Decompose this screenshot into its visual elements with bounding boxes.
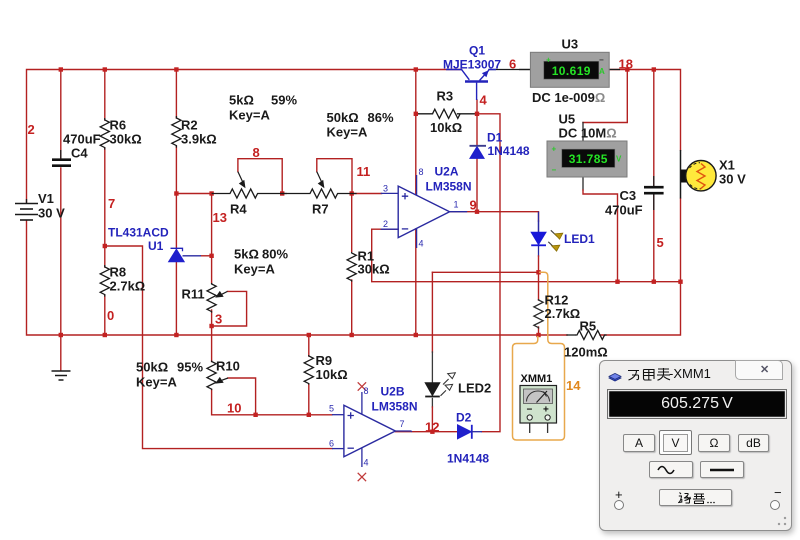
op-amp U2A	[381, 175, 468, 248]
svg-text:50kΩ: 50kΩ	[327, 110, 359, 125]
svg-text:5: 5	[329, 404, 334, 414]
transistor Q1	[446, 70, 496, 101]
wire LED1 cathode to net14 junction	[538, 246, 540, 256]
svg-text:2.7kΩ: 2.7kΩ	[545, 306, 581, 321]
junction lamp bottom net 5	[678, 280, 682, 284]
svg-text:470uF: 470uF	[63, 132, 101, 147]
svg-text:DC 1e-009Ω: DC 1e-009Ω	[532, 90, 605, 105]
svg-text:R4: R4	[230, 202, 247, 217]
button A	[623, 434, 655, 452]
svg-text:10.619: 10.619	[552, 64, 591, 78]
wire R9 bottom	[308, 384, 310, 415]
junction C4 ground rail	[59, 333, 63, 337]
wire R11 bottom through rail to R10	[211, 310, 213, 362]
svg-text:C3: C3	[620, 188, 637, 203]
potentiometer R11	[207, 283, 227, 313]
wire rail to R5	[567, 334, 575, 336]
svg-text:1: 1	[454, 200, 459, 210]
svg-text:14: 14	[566, 378, 581, 393]
wire net 4 jog to D2 cathode	[477, 114, 500, 432]
junction Q1 branch top rail	[414, 67, 418, 71]
resistor R1	[347, 252, 356, 282]
wire U2A pin8 supply column	[415, 70, 417, 195]
junction R2 top rail	[174, 67, 178, 71]
svg-text:R8: R8	[110, 265, 127, 280]
settings button	[659, 489, 732, 506]
junction R6 top rail	[103, 67, 107, 71]
XMM1 probe wires	[513, 272, 565, 440]
wire Q1 base to net 4 junction	[476, 100, 478, 114]
svg-text:8: 8	[253, 145, 260, 160]
diode D2	[458, 425, 483, 439]
svg-text:4: 4	[364, 458, 369, 468]
terminal minus	[774, 485, 782, 500]
meter display	[607, 389, 787, 419]
svg-text:A: A	[599, 67, 605, 76]
svg-text:3.9kΩ: 3.9kΩ	[181, 132, 217, 147]
wire R8 bottom net 0	[104, 295, 106, 335]
wire R11 wiper loop net 3	[211, 159, 213, 172]
svg-text:U2A: U2A	[435, 165, 459, 179]
svg-text:Key=A: Key=A	[234, 262, 275, 277]
junction R11 wiper net 3	[209, 324, 213, 328]
junction LED1 R12 net 14	[536, 270, 540, 274]
svg-text:2.7kΩ: 2.7kΩ	[110, 279, 146, 294]
button dB	[738, 434, 769, 452]
junction C3 top net 18	[652, 67, 656, 71]
unconnected pin X bottom U2B	[358, 473, 366, 481]
wire U5 bottom to net5	[582, 177, 584, 190]
svg-text:TL431ACD: TL431ACD	[108, 226, 169, 240]
button Ohm	[698, 434, 730, 452]
window title	[627, 367, 671, 381]
wire C3 bottom net5	[653, 194, 655, 282]
svg-text:10: 10	[227, 401, 241, 416]
capacitor C3	[644, 176, 664, 210]
svg-text:R5: R5	[580, 319, 597, 334]
junction R1 bottom ground rail	[350, 333, 354, 337]
wire LED2 cathode to node 12	[431, 399, 433, 408]
svg-text:30kΩ: 30kΩ	[110, 132, 142, 147]
wire R3 right lead	[458, 113, 478, 115]
svg-text:4: 4	[419, 239, 424, 249]
junction U2A pin4 ground rail	[414, 333, 418, 337]
wire C4 bottom	[60, 168, 62, 335]
wire U1 cathode column	[175, 194, 177, 248]
junction R9 top ground rail	[307, 333, 311, 337]
button V selected	[659, 430, 692, 455]
resize grip	[777, 516, 787, 526]
svg-text:U3: U3	[562, 37, 579, 52]
svg-text:470uF: 470uF	[605, 203, 643, 218]
wire R5 right to net5 riser	[600, 282, 681, 335]
svg-text:1N4148: 1N4148	[488, 144, 530, 158]
wire R7 wiper loop net 11	[317, 159, 352, 194]
LED2	[425, 373, 455, 397]
resistor R3	[433, 109, 461, 118]
wire R1 bottom	[351, 280, 353, 335]
lamp X1	[681, 150, 717, 199]
wire R9 top	[308, 335, 310, 356]
junction R4 left net 13	[209, 191, 213, 195]
svg-text:13: 13	[213, 210, 227, 225]
svg-text:30 V: 30 V	[719, 172, 746, 187]
svg-text:V1: V1	[38, 191, 54, 206]
button sine	[649, 461, 693, 478]
wire lamp bottom	[680, 199, 682, 282]
svg-text:50kΩ: 50kΩ	[136, 360, 168, 375]
svg-text:2: 2	[383, 219, 388, 229]
capacitor C4	[52, 150, 71, 166]
svg-text:10kΩ: 10kΩ	[316, 367, 348, 382]
wire R6 column top	[104, 70, 106, 121]
svg-text:10kΩ: 10kΩ	[430, 120, 462, 135]
svg-text:0: 0	[107, 308, 114, 323]
wire U2B output net12	[395, 431, 457, 433]
svg-text:59%: 59%	[271, 93, 297, 108]
LED1	[531, 212, 563, 252]
svg-text:−: −	[599, 56, 604, 65]
junction U1 anode ground rail	[174, 333, 178, 337]
wire R10 bottom net 10	[212, 390, 332, 415]
potentiometer R7	[282, 172, 356, 198]
diode D1	[470, 146, 487, 159]
wire U1 ref to net13 column	[201, 255, 212, 257]
wire net 7 R6 to R8	[104, 148, 106, 267]
wire net 7 jog to U2B pin6	[105, 246, 332, 449]
svg-text:LED2: LED2	[458, 381, 491, 396]
wire U2A pin2 to net5	[372, 229, 681, 282]
wire LED1-LED2 link	[432, 271, 538, 273]
junction R8 ground rail	[103, 333, 107, 337]
junction U2A output net 9	[475, 210, 479, 214]
svg-text:Key=A: Key=A	[136, 375, 177, 390]
svg-text:Q1: Q1	[469, 44, 485, 58]
svg-text:12: 12	[425, 420, 439, 435]
multimeter window XMM1	[599, 360, 792, 531]
wire net18 drop to U5 top	[583, 70, 627, 123]
svg-text:R6: R6	[110, 118, 127, 133]
svg-text:R7: R7	[312, 202, 329, 217]
wire LED2 column	[431, 272, 433, 352]
junction U2B output net 12	[430, 430, 434, 434]
svg-text:D2: D2	[456, 411, 472, 425]
wire Q1 emitter to U3	[489, 69, 530, 71]
junction U1 ref net 13	[209, 254, 213, 258]
wire battery bottom to ground rail	[27, 221, 568, 335]
svg-text:6: 6	[509, 57, 516, 72]
svg-text:DC 10MΩ: DC 10MΩ	[559, 126, 617, 141]
potentiometer R10	[207, 361, 228, 391]
svg-text:LM358N: LM358N	[372, 400, 418, 414]
junction net 18 U5 drop	[625, 67, 629, 71]
unconnected pin X top U2B	[358, 382, 366, 390]
wire R4 wiper loop net 8	[238, 159, 282, 194]
svg-text:+: +	[543, 405, 549, 416]
svg-text:6: 6	[329, 439, 334, 449]
svg-text:C4: C4	[71, 146, 88, 161]
junction C3 bottom net 5	[652, 280, 656, 284]
svg-text:3: 3	[383, 184, 388, 194]
svg-text:LM358N: LM358N	[426, 180, 472, 194]
ammeter U3	[519, 52, 620, 87]
svg-text:30 V: 30 V	[38, 206, 65, 221]
svg-text:4: 4	[480, 93, 488, 108]
junction R4 wiper net 8	[280, 191, 284, 195]
ground symbol	[52, 337, 71, 380]
wire D1 column net4 to net9	[476, 114, 478, 145]
wire R10 wiper loop	[228, 378, 256, 415]
wire R12 bottom	[538, 327, 540, 335]
resistor R2	[172, 116, 181, 148]
wire lamp top from rail	[609, 70, 680, 151]
svg-text:8: 8	[419, 167, 424, 177]
svg-text:11: 11	[357, 164, 371, 179]
wire net 13 column	[211, 194, 213, 284]
TL431 U1	[169, 248, 201, 262]
XMM1 instrument icon	[520, 386, 557, 434]
svg-text:3: 3	[215, 312, 222, 327]
svg-text:R11: R11	[182, 287, 205, 302]
junction net 7 tap	[103, 244, 107, 248]
resistor R12	[534, 299, 543, 329]
wire net 9 output to LED1	[450, 212, 539, 221]
potentiometer R4	[212, 172, 287, 198]
svg-text:−: −	[527, 405, 533, 416]
svg-text:R2: R2	[181, 118, 198, 133]
svg-text:MJE13007: MJE13007	[443, 58, 501, 72]
junction U5 minus net 5	[615, 280, 619, 284]
svg-text:30kΩ: 30kΩ	[358, 262, 390, 277]
window close button	[735, 360, 783, 380]
svg-text:X1: X1	[719, 158, 735, 173]
junction R12 bottom ground rail	[536, 333, 540, 337]
junction R3 right net 4	[475, 112, 479, 116]
resistor R6	[100, 118, 109, 150]
resistor R9	[304, 355, 313, 385]
svg-text:+: +	[546, 56, 551, 65]
junction C4 top rail	[59, 67, 63, 71]
svg-text:80%: 80%	[262, 247, 288, 262]
svg-text:Key=A: Key=A	[327, 125, 368, 140]
wire R2 bottom to net 13	[176, 146, 211, 194]
voltmeter U5	[547, 141, 627, 177]
terminal plus	[615, 487, 623, 502]
wire R12 top	[538, 272, 540, 300]
svg-text:V: V	[616, 155, 622, 164]
junction R2 bottom net 13	[174, 191, 178, 195]
svg-text:9: 9	[470, 198, 477, 213]
wire R2 column top	[175, 70, 177, 119]
junction R3 left net 2	[414, 112, 418, 116]
wire R3 left lead	[416, 113, 433, 115]
svg-text:U5: U5	[559, 112, 576, 127]
svg-text:120mΩ: 120mΩ	[564, 345, 608, 360]
svg-text:LED1: LED1	[564, 232, 595, 246]
svg-text:XMM1: XMM1	[521, 373, 553, 385]
junction R10 wiper net 10	[253, 413, 257, 417]
svg-text:7: 7	[108, 196, 115, 211]
svg-text:18: 18	[619, 57, 633, 72]
svg-text:2: 2	[28, 122, 35, 137]
resistor R5	[575, 330, 607, 339]
svg-text:U1: U1	[148, 239, 164, 253]
wire R1 top	[351, 194, 353, 253]
svg-text:D1: D1	[487, 131, 503, 145]
svg-text:31.785: 31.785	[569, 152, 608, 166]
svg-text:+: +	[552, 145, 557, 154]
junction R9 bottom net 10	[307, 413, 311, 417]
wire U1 anode to ground rail	[175, 262, 177, 335]
svg-text:U2B: U2B	[381, 385, 405, 399]
wire C4 column	[60, 70, 62, 159]
svg-text:95%: 95%	[177, 360, 203, 375]
resistor R8	[100, 265, 109, 297]
svg-text:5: 5	[657, 235, 664, 250]
wire top rail net 2	[27, 70, 462, 204]
window titlebar icon	[608, 370, 622, 380]
svg-text:R9: R9	[316, 353, 333, 368]
button DC line	[700, 461, 744, 478]
svg-text:86%: 86%	[368, 110, 394, 125]
svg-text:−: −	[552, 166, 557, 175]
svg-text:Key=A: Key=A	[229, 108, 270, 123]
battery V1	[15, 199, 38, 220]
op-amp U2B	[332, 392, 412, 467]
svg-text:1N4148: 1N4148	[447, 452, 489, 466]
svg-text:5kΩ: 5kΩ	[229, 93, 254, 108]
junction R7 wiper R1 net 11	[350, 191, 354, 195]
svg-text:R10: R10	[216, 359, 240, 374]
svg-text:R3: R3	[437, 89, 454, 104]
svg-text:8: 8	[364, 386, 369, 396]
svg-text:7: 7	[400, 419, 405, 429]
wire U2A pin4 down to ground rail	[415, 229, 417, 335]
wire C3 top	[653, 70, 655, 187]
svg-text:5kΩ: 5kΩ	[234, 247, 259, 262]
